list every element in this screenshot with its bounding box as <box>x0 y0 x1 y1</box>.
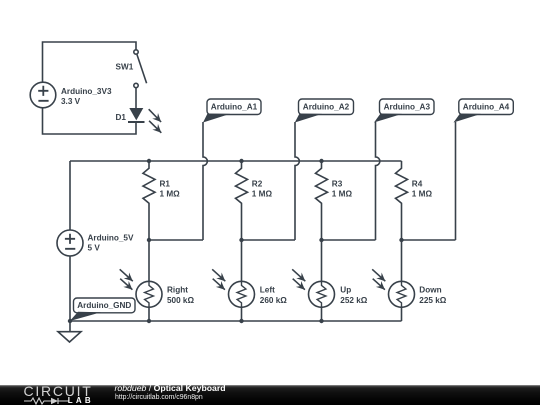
svg-text:Arduino_GND: Arduino_GND <box>77 301 131 310</box>
svg-text:252 kΩ: 252 kΩ <box>340 296 367 305</box>
svg-text:R3: R3 <box>332 179 343 188</box>
svg-text:260 kΩ: 260 kΩ <box>260 296 287 305</box>
svg-text:1 MΩ: 1 MΩ <box>160 190 181 199</box>
svg-text:Arduino_A4: Arduino_A4 <box>463 103 510 112</box>
svg-text:3.3 V: 3.3 V <box>61 97 81 106</box>
svg-text:Arduino_A3: Arduino_A3 <box>384 103 431 112</box>
svg-text:Left: Left <box>260 286 275 295</box>
svg-text:500 kΩ: 500 kΩ <box>167 296 194 305</box>
svg-text:1 MΩ: 1 MΩ <box>332 190 353 199</box>
svg-text:1 MΩ: 1 MΩ <box>252 190 273 199</box>
svg-text:5 V: 5 V <box>88 244 101 253</box>
svg-text:Down: Down <box>419 286 441 295</box>
svg-text:Arduino_3V3: Arduino_3V3 <box>61 87 112 96</box>
svg-text:Arduino_A2: Arduino_A2 <box>303 103 350 112</box>
svg-text:Arduino_5V: Arduino_5V <box>88 234 134 243</box>
svg-text:1 MΩ: 1 MΩ <box>412 190 433 199</box>
svg-text:Up: Up <box>340 286 351 295</box>
svg-text:Arduino_A1: Arduino_A1 <box>211 103 258 112</box>
svg-text:R1: R1 <box>160 179 171 188</box>
svg-text:R4: R4 <box>412 179 423 188</box>
svg-text:Right: Right <box>167 286 188 295</box>
svg-text:D1: D1 <box>116 113 127 122</box>
svg-text:225 kΩ: 225 kΩ <box>419 296 446 305</box>
svg-text:R2: R2 <box>252 179 263 188</box>
svg-text:SW1: SW1 <box>116 63 134 72</box>
